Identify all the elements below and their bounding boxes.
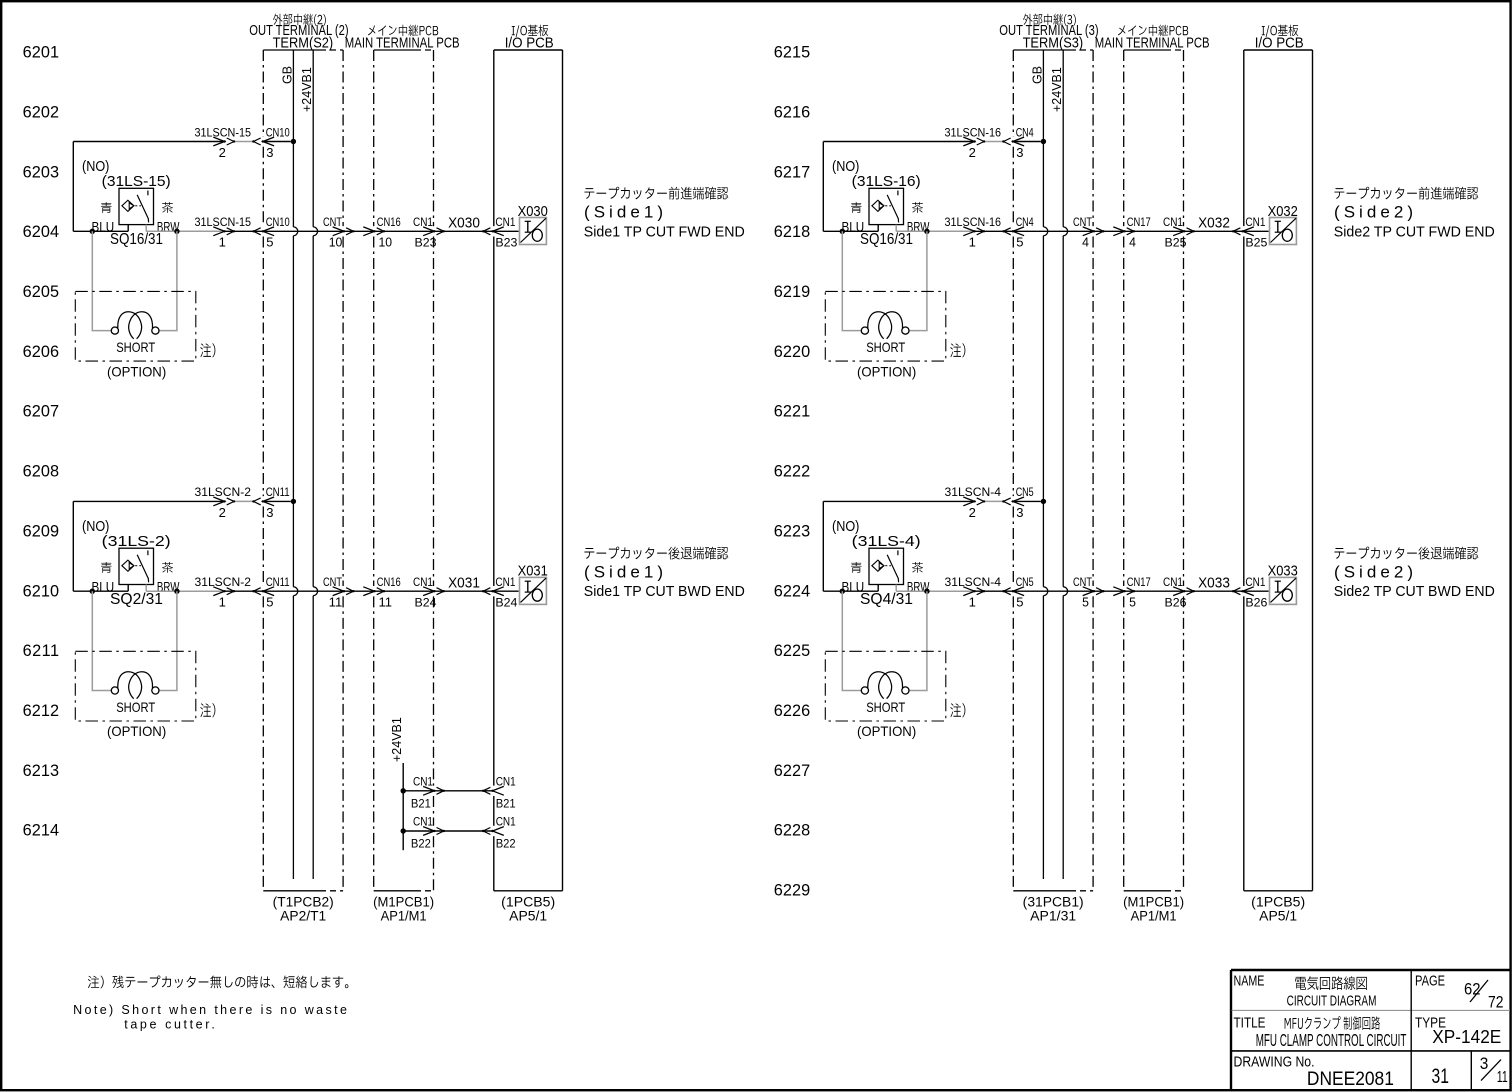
connector CN1 B26 female I/O [1243, 587, 1254, 596]
svg-text:6205: 6205 [23, 283, 59, 301]
svg-text:SQ16/31: SQ16/31 [860, 231, 913, 248]
svg-text:(Side2): (Side2) [1334, 203, 1413, 222]
wire top loop X031 [72, 501, 74, 591]
svg-text:6220: 6220 [774, 343, 810, 361]
svg-text:CN5: CN5 [1016, 575, 1034, 589]
label BLU blue [101, 562, 112, 573]
svg-text:6215: 6215 [774, 44, 810, 62]
svg-text:(31LS-4): (31LS-4) [852, 533, 921, 550]
note mark [950, 703, 965, 717]
wire BLU drop to short plug [92, 231, 111, 330]
connector CN17 pin5 male [1113, 587, 1124, 596]
svg-text:B22: B22 [411, 837, 431, 851]
connector CN10 pin3 female [263, 137, 274, 146]
label BRW brown [162, 202, 173, 213]
svg-text:(OPTION): (OPTION) [107, 723, 166, 739]
contact blade SQ16/31 [137, 195, 148, 223]
svg-text:Side2 TP CUT BWD END: Side2 TP CUT BWD END [1334, 584, 1495, 600]
junction dot BLU [90, 229, 95, 234]
net +24VB1 bottom vertical [402, 763, 404, 850]
svg-text:6224: 6224 [774, 582, 810, 600]
annotation X031 japanese [584, 547, 728, 560]
svg-text:CN1: CN1 [1245, 215, 1265, 229]
svg-text:CN16: CN16 [377, 215, 401, 229]
svg-text:GB: GB [1031, 66, 1045, 84]
svg-text:X031: X031 [448, 575, 480, 591]
terminal stubs SQ16/31 [127, 225, 129, 232]
contact blade SQ4/31 [887, 555, 898, 583]
svg-text:AP1/M1: AP1/M1 [1131, 909, 1177, 924]
svg-text:(OPTION): (OPTION) [857, 723, 916, 739]
svg-text:SQ16/31: SQ16/31 [110, 231, 163, 248]
svg-text:6226: 6226 [774, 702, 810, 720]
header I/O PCB left [512, 25, 548, 38]
connector CNT pin4 male [1083, 227, 1094, 236]
short plug loops [118, 312, 142, 339]
svg-text:(1PCB5): (1PCB5) [501, 895, 555, 910]
title block frame [1231, 969, 1511, 972]
wire BRW drop to short plug [909, 231, 927, 330]
svg-text:AP2/T1: AP2/T1 [280, 909, 326, 924]
limit switch SQ4/31 box [869, 548, 904, 584]
connector CN4 pin3 female [1013, 137, 1024, 146]
svg-text:6212: 6212 [23, 702, 59, 720]
label BLU blue [851, 562, 862, 573]
svg-text:6214: 6214 [23, 822, 59, 840]
wire switch right segment grey X032 [896, 230, 974, 232]
short plug terminals [861, 687, 868, 694]
svg-text:6223: 6223 [774, 522, 810, 540]
svg-text:6221: 6221 [774, 403, 810, 421]
svg-text:(31LS-15): (31LS-15) [102, 173, 171, 190]
wire switch right segment grey X031 [146, 590, 224, 592]
svg-text:Side1 TP CUT FWD END: Side1 TP CUT FWD END [584, 224, 745, 240]
connector CNT pin11 male [333, 587, 344, 596]
main terminal pcb box left [374, 49, 415, 51]
svg-text:31LSCN-4: 31LSCN-4 [945, 575, 1002, 589]
svg-text:4: 4 [1082, 235, 1089, 250]
proximity diamond SQ4/31 [872, 560, 884, 571]
net GB vertical right [1042, 50, 1044, 227]
svg-text:TITLE: TITLE [1234, 1014, 1266, 1031]
svg-text:SQ4/31: SQ4/31 [860, 591, 913, 608]
net GB vertical left [292, 50, 294, 227]
svg-text:2: 2 [969, 145, 976, 160]
connector CN1 B21 female [493, 786, 504, 795]
svg-text:CN1: CN1 [495, 575, 515, 589]
wire BRW drop to short plug [159, 591, 177, 690]
svg-text:NAME: NAME [1234, 973, 1265, 990]
wire BLU drop to short plug [92, 591, 111, 690]
header MAIN TERMINAL PCB left [368, 25, 438, 37]
svg-text:(31LS-16): (31LS-16) [852, 173, 921, 190]
connector CN1 B21 male [423, 786, 434, 795]
svg-text:2: 2 [219, 505, 226, 520]
svg-text:10: 10 [379, 235, 393, 250]
svg-text:CN5: CN5 [1016, 485, 1034, 499]
svg-text:CN4: CN4 [1016, 125, 1034, 139]
svg-text:X032: X032 [1198, 216, 1230, 232]
junction dot GB X033 [1041, 499, 1046, 504]
svg-text:6202: 6202 [23, 103, 59, 121]
svg-text:72: 72 [1488, 993, 1504, 1012]
short plug (option) box [75, 291, 196, 361]
svg-text:DNEE2081: DNEE2081 [1307, 1069, 1394, 1090]
I/O pcb box right [1244, 49, 1313, 51]
svg-text:31LSCN-2: 31LSCN-2 [195, 575, 252, 589]
wire top loop X033 [822, 501, 824, 591]
svg-text:6210: 6210 [23, 582, 59, 600]
label BLU blue [851, 202, 862, 213]
proximity diamond SQ2/31 [122, 560, 134, 571]
junction dot GB X030 [291, 139, 296, 144]
contact blade SQ16/31 [887, 195, 898, 223]
net +24VB1 vertical right [1062, 50, 1064, 227]
connector CN5 pin5 female [1013, 587, 1024, 596]
connector CN10 pin5 female [263, 227, 274, 236]
connector CN1 B23 male [423, 227, 434, 236]
wire main X033 [975, 590, 1269, 592]
svg-text:CN16: CN16 [377, 575, 401, 589]
main terminal pcb box right [1124, 49, 1165, 51]
svg-text:(1PCB5): (1PCB5) [1251, 895, 1305, 910]
svg-text:TERM(S2): TERM(S2) [273, 36, 334, 52]
svg-text:6218: 6218 [774, 223, 810, 241]
svg-text:5: 5 [1129, 595, 1136, 610]
connector CN1 B22 female [493, 827, 504, 836]
wire switch left segment X031 [73, 590, 128, 592]
svg-text:6222: 6222 [774, 463, 810, 481]
svg-text:6211: 6211 [23, 642, 59, 660]
svg-text:CNT: CNT [1073, 575, 1092, 589]
contact blade SQ2/31 [137, 555, 148, 583]
net +24VB1 vertical left [312, 50, 314, 227]
svg-text:AP5/1: AP5/1 [509, 909, 547, 924]
junction dot BLU [90, 589, 95, 594]
svg-text:1: 1 [219, 595, 226, 610]
svg-text:3: 3 [1016, 505, 1023, 520]
svg-text:CN1: CN1 [1245, 575, 1265, 589]
svg-text:2: 2 [969, 505, 976, 520]
svg-text:B22: B22 [496, 837, 516, 851]
svg-text:B23: B23 [415, 236, 437, 250]
svg-text:SQ2/31: SQ2/31 [110, 591, 163, 608]
terminal stubs SQ2/31 [127, 585, 129, 592]
svg-text:6227: 6227 [774, 762, 810, 780]
svg-text:+24VB1: +24VB1 [390, 717, 404, 762]
svg-text:MFU CLAMP CONTROL CIRCUIT: MFU CLAMP CONTROL CIRCUIT [1256, 1030, 1407, 1050]
wire main X031 [225, 590, 519, 592]
connector CN16 pin11 male [363, 587, 374, 596]
svg-text:6216: 6216 [774, 103, 810, 121]
limit switch SQ2/31 box [119, 548, 154, 584]
svg-text:6225: 6225 [774, 642, 810, 660]
svg-text:B21: B21 [411, 796, 431, 810]
connector CNT pin10 male [333, 227, 344, 236]
svg-text:(T1PCB2): (T1PCB2) [273, 895, 334, 910]
junction dot GB X032 [1041, 139, 1046, 144]
wire B22 [403, 830, 493, 832]
label BRW brown [162, 562, 173, 573]
junction dot BRW [924, 229, 929, 234]
note japanese [88, 975, 349, 988]
svg-text:31: 31 [1432, 1065, 1449, 1088]
svg-text:1: 1 [969, 595, 976, 610]
connector CN1 B24 female I/O [493, 587, 504, 596]
svg-text:B24: B24 [495, 596, 517, 610]
connector CN1 B25 female I/O [1243, 227, 1254, 236]
svg-text:11: 11 [379, 595, 393, 610]
svg-text:5: 5 [1082, 595, 1089, 610]
svg-text:PAGE: PAGE [1415, 973, 1445, 990]
svg-text:XP-142E: XP-142E [1432, 1027, 1501, 1047]
svg-text:(Side2): (Side2) [1334, 562, 1413, 581]
svg-text:CN11: CN11 [266, 575, 290, 589]
svg-text:10: 10 [329, 235, 343, 250]
limit switch SQ16/31 box [119, 188, 154, 224]
svg-text:AP1/31: AP1/31 [1030, 909, 1076, 924]
svg-text:11: 11 [1497, 1069, 1508, 1086]
svg-text:31LSCN-4: 31LSCN-4 [945, 485, 1002, 499]
svg-text:X030: X030 [448, 216, 480, 232]
svg-text:B26: B26 [1165, 596, 1187, 610]
svg-text:31LSCN-15: 31LSCN-15 [195, 125, 252, 139]
svg-text:(Side1): (Side1) [584, 562, 663, 581]
svg-text:5: 5 [266, 595, 273, 610]
svg-text:CN1: CN1 [413, 774, 433, 788]
svg-text:Side1 TP CUT BWD END: Side1 TP CUT BWD END [584, 584, 745, 600]
svg-text:2: 2 [219, 145, 226, 160]
wire main X030 [225, 230, 519, 232]
svg-text:3: 3 [266, 145, 273, 160]
svg-text:I/O PCB: I/O PCB [505, 36, 554, 52]
svg-text:SHORT: SHORT [116, 339, 155, 355]
connector CN16 pin10 male [363, 227, 374, 236]
svg-text:(OPTION): (OPTION) [857, 363, 916, 379]
svg-text:6228: 6228 [774, 822, 810, 840]
terminal stubs SQ16/31 [877, 225, 879, 232]
short plug (option) box [75, 651, 196, 721]
svg-text:1: 1 [969, 235, 976, 250]
connector 31LSCN-15 pin1 male [213, 227, 224, 236]
junction dot BLU [840, 229, 845, 234]
connector CN1 B23 female I/O [493, 227, 504, 236]
svg-text:CIRCUIT DIAGRAM: CIRCUIT DIAGRAM [1287, 993, 1377, 1010]
connector 31LSCN-2 pin1 male [213, 587, 224, 596]
wire switch left segment X030 [73, 230, 128, 232]
I/O pcb box left [494, 49, 563, 51]
svg-text:SHORT: SHORT [866, 699, 905, 715]
svg-text:MAIN TERMINAL PCB: MAIN TERMINAL PCB [345, 36, 460, 52]
short plug loops [118, 672, 142, 699]
svg-text:(31LS-2): (31LS-2) [102, 533, 171, 550]
svg-text:3: 3 [1480, 1054, 1489, 1073]
connector 31LSCN-4 pin2 male [963, 497, 974, 506]
junction dot BRW [174, 589, 179, 594]
svg-text:SHORT: SHORT [116, 699, 155, 715]
connector CN4 pin5 female [1013, 227, 1024, 236]
junction dot GB X031 [291, 499, 296, 504]
svg-text:+24VB1: +24VB1 [300, 67, 314, 112]
svg-text:(M1PCB1): (M1PCB1) [1123, 895, 1184, 910]
svg-text:6201: 6201 [23, 44, 59, 62]
connector CN1 B25 male [1173, 227, 1184, 236]
connector CNT pin5 male [1083, 587, 1094, 596]
svg-text:3: 3 [1016, 145, 1023, 160]
svg-text:31LSCN-15: 31LSCN-15 [195, 215, 252, 229]
svg-text:B25: B25 [1165, 236, 1187, 250]
connector CN11 pin5 female [263, 587, 274, 596]
note mark [200, 343, 215, 357]
header MAIN TERMINAL PCB right [1118, 25, 1188, 37]
label BLU blue [101, 202, 112, 213]
svg-text:Side2 TP CUT FWD END: Side2 TP CUT FWD END [1334, 224, 1495, 240]
wire BRW drop to short plug [159, 231, 177, 330]
svg-text:31LSCN-16: 31LSCN-16 [945, 215, 1002, 229]
svg-text:MAIN TERMINAL PCB: MAIN TERMINAL PCB [1095, 36, 1210, 52]
svg-text:31LSCN-2: 31LSCN-2 [195, 485, 252, 499]
svg-text:I/O PCB: I/O PCB [1255, 36, 1304, 52]
svg-text:5: 5 [266, 235, 273, 250]
junction dot B22 [401, 828, 406, 833]
junction dot BLU [840, 589, 845, 594]
wire BLU drop to short plug [842, 231, 861, 330]
svg-text:CN1: CN1 [495, 215, 515, 229]
svg-text:CN1: CN1 [413, 815, 433, 829]
wire switch right segment grey X030 [146, 230, 224, 232]
wire BRW drop to short plug [909, 591, 927, 690]
note mark [200, 703, 215, 717]
svg-text:+24VB1: +24VB1 [1050, 67, 1064, 112]
note mark [950, 343, 965, 357]
svg-text:AP1/M1: AP1/M1 [381, 909, 427, 924]
svg-text:6217: 6217 [774, 163, 810, 181]
label BRW brown [912, 202, 923, 213]
short plug terminals [111, 327, 118, 334]
svg-text:CN11: CN11 [266, 485, 290, 499]
svg-text:DRAWING No.: DRAWING No. [1234, 1055, 1315, 1071]
svg-text:CN17: CN17 [1127, 575, 1151, 589]
header OUT TERMINAL (3) right [1023, 14, 1076, 26]
connector CN11 pin3 female [263, 497, 274, 506]
header OUT TERMINAL (2) left [273, 14, 326, 26]
svg-text:1: 1 [219, 235, 226, 250]
svg-text:CN10: CN10 [266, 125, 290, 139]
svg-text:CN1: CN1 [413, 575, 433, 589]
short plug loops [868, 672, 892, 699]
wire B21 [403, 790, 493, 792]
proximity diamond SQ16/31 [872, 200, 884, 211]
wire main X032 [975, 230, 1269, 232]
svg-text:CNT: CNT [323, 575, 342, 589]
svg-text:(OPTION): (OPTION) [107, 363, 166, 379]
svg-text:6208: 6208 [23, 463, 59, 481]
svg-text:B24: B24 [415, 596, 437, 610]
svg-text:CN4: CN4 [1016, 215, 1034, 229]
svg-text:4: 4 [1129, 235, 1136, 250]
svg-text:B25: B25 [1245, 236, 1267, 250]
svg-text:6206: 6206 [23, 343, 59, 361]
connector CN5 pin3 female [1013, 497, 1024, 506]
connector 31LSCN-2 pin2 male [213, 497, 224, 506]
terminal stubs SQ4/31 [877, 585, 879, 592]
svg-text:GB: GB [281, 66, 295, 84]
svg-text:CN1: CN1 [1163, 575, 1183, 589]
connector CN1 B22 male [423, 827, 434, 836]
short plug terminals [111, 687, 118, 694]
svg-text:6213: 6213 [23, 762, 59, 780]
svg-text:X033: X033 [1198, 575, 1230, 591]
junction dot BRW [924, 589, 929, 594]
connector 31LSCN-4 pin1 male [963, 587, 974, 596]
short plug loops [868, 312, 892, 339]
short plug (option) box [825, 291, 946, 361]
connector 31LSCN-15 pin2 male [213, 137, 224, 146]
svg-text:CN1: CN1 [1163, 215, 1183, 229]
svg-text:B23: B23 [495, 236, 517, 250]
svg-text:CNT: CNT [323, 215, 342, 229]
wire top loop X030 [72, 142, 74, 232]
svg-text:AP5/1: AP5/1 [1259, 909, 1297, 924]
label BRW brown [912, 562, 923, 573]
connector 31LSCN-16 pin1 male [963, 227, 974, 236]
svg-text:B26: B26 [1245, 596, 1267, 610]
svg-text:CN1: CN1 [413, 215, 433, 229]
svg-text:6219: 6219 [774, 283, 810, 301]
wire top loop X032 [822, 142, 824, 232]
svg-text:B21: B21 [496, 796, 516, 810]
connector CN1 B26 male [1173, 587, 1184, 596]
svg-text:3: 3 [266, 505, 273, 520]
wire switch right segment grey X033 [896, 590, 974, 592]
svg-text:CN17: CN17 [1127, 215, 1151, 229]
svg-text:(31PCB1): (31PCB1) [1023, 895, 1084, 910]
limit switch SQ16/31 box [869, 188, 904, 224]
svg-text:6209: 6209 [23, 522, 59, 540]
annotation X032 japanese [1334, 187, 1478, 200]
annotation X030 japanese [584, 187, 728, 200]
connector 31LSCN-16 pin2 male [963, 137, 974, 146]
svg-text:6207: 6207 [23, 403, 59, 421]
svg-text:CN1: CN1 [496, 815, 516, 829]
svg-text:(Side1): (Side1) [584, 203, 663, 222]
proximity diamond SQ16/31 [122, 200, 134, 211]
short plug terminals [861, 327, 868, 334]
connector CN17 pin4 male [1113, 227, 1124, 236]
svg-text:11: 11 [329, 595, 343, 610]
wire switch left segment X032 [823, 230, 878, 232]
svg-text:CNT: CNT [1073, 215, 1092, 229]
svg-text:31LSCN-16: 31LSCN-16 [945, 125, 1002, 139]
svg-text:SHORT: SHORT [866, 339, 905, 355]
terminal box TERM(S3) right [1013, 49, 1070, 51]
svg-text:6204: 6204 [23, 223, 59, 241]
junction dot B21 [401, 788, 406, 793]
header I/O PCB right [1262, 25, 1298, 38]
short plug (option) box [825, 651, 946, 721]
svg-text:TERM(S3): TERM(S3) [1023, 36, 1084, 52]
terminal box TERM(S2) left [263, 49, 320, 51]
svg-text:CN10: CN10 [266, 215, 290, 229]
svg-text:62: 62 [1464, 979, 1481, 998]
svg-text:6229: 6229 [774, 882, 810, 900]
svg-text:CN1: CN1 [496, 774, 516, 788]
svg-text:(M1PCB1): (M1PCB1) [373, 895, 434, 910]
wire switch left segment X033 [823, 590, 878, 592]
svg-text:5: 5 [1016, 235, 1023, 250]
junction dot BRW [174, 229, 179, 234]
svg-text:5: 5 [1016, 595, 1023, 610]
